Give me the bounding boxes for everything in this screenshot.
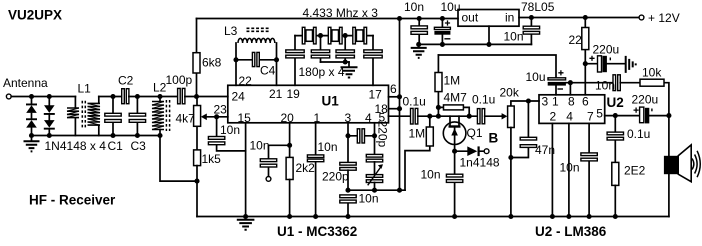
node pin20 branch: [287, 143, 292, 148]
wire pin 18 stub: [389, 108, 400, 110]
node rail riser: [397, 16, 402, 21]
capacitor 10n below node A: [340, 195, 356, 217]
inductor L3 with core: [236, 28, 277, 85]
diode D3 (1N4148, pointing down): [44, 97, 55, 121]
svg-text:5: 5: [596, 107, 603, 121]
potentiometer 20k volume: [502, 106, 515, 217]
node gnd bus left: [416, 42, 421, 47]
ground bus main: [197, 216, 669, 218]
capacitor C1: [105, 97, 121, 136]
wire decoupling ground bus: [419, 43, 532, 45]
wire pin 2 down: [551, 123, 553, 216]
svg-text:L3: L3: [224, 24, 238, 38]
capacitor coupling pin3-pin4 (series): [348, 129, 375, 143]
wire riser to V+ rail: [399, 19, 401, 191]
inductor L2: [152, 97, 164, 136]
node gnd bus regulator: [486, 42, 491, 47]
wire C2 to L2 top: [129, 96, 160, 98]
node 180p bus: [343, 59, 348, 64]
svg-text:21: 21: [269, 87, 283, 101]
wire antenna to diodes and L1 primary: [11, 96, 75, 98]
node C3 bottom: [135, 133, 140, 138]
svg-text:100p: 100p: [166, 73, 193, 87]
svg-text:1M: 1M: [444, 74, 461, 88]
node L2 top: [157, 94, 162, 99]
svg-text:4: 4: [566, 110, 573, 124]
node 220u supply: [583, 61, 588, 66]
svg-text:220p: 220p: [376, 121, 390, 148]
svg-text:U2 - LM386: U2 - LM386: [535, 224, 607, 239]
svg-text:220u: 220u: [632, 93, 659, 107]
speaker: [664, 116, 700, 217]
svg-text:0.1u: 0.1u: [403, 95, 426, 109]
wire gain 10u feed: [438, 55, 556, 78]
crystal X2: [328, 27, 342, 44]
svg-text:2k2: 2k2: [296, 161, 316, 175]
capacitor 0.1u pin5 (series): [411, 108, 418, 124]
svg-text:4k7: 4k7: [176, 112, 196, 126]
svg-text:out: out: [462, 11, 479, 25]
svg-text:U1 - MC3362: U1 - MC3362: [277, 224, 357, 239]
svg-text:19: 19: [287, 87, 301, 101]
resistor 4M7: [438, 105, 469, 116]
resistor 2E2: [612, 162, 619, 216]
capacitor 47n: [511, 101, 537, 158]
node emitter: [452, 149, 457, 154]
node C3 top: [135, 94, 140, 99]
svg-text:U2: U2: [607, 95, 624, 110]
node pin3 47n: [526, 98, 531, 103]
wire pin 3 to volume pot: [511, 101, 539, 106]
svg-text:20: 20: [281, 111, 295, 125]
wire pin 5 to 0.1u: [389, 115, 411, 117]
node bus pin15: [243, 214, 248, 219]
wire pin 5 output: [605, 115, 640, 117]
transformer L1 secondary: [88, 97, 101, 136]
svg-text:180p x 4: 180p x 4: [299, 65, 345, 79]
svg-text:220u: 220u: [593, 43, 620, 57]
wire 100p to U1 pin 24: [185, 96, 228, 98]
svg-text:10n: 10n: [421, 168, 441, 182]
svg-text:10n: 10n: [318, 140, 338, 154]
svg-text:C4: C4: [260, 64, 276, 78]
svg-text:15: 15: [238, 111, 252, 125]
capacitor 180p #3: [336, 36, 354, 62]
node C1 bottom: [110, 133, 115, 138]
wire bottom rail input section: [32, 135, 161, 137]
wire L2 bottom to 1k5 bottom junction: [160, 136, 197, 217]
svg-text:U1: U1: [322, 94, 340, 109]
svg-text:2E2: 2E2: [624, 164, 646, 178]
inductor L2 core: [166, 100, 169, 131]
wire regulator ground pin: [488, 26, 490, 44]
node 4M7 right: [467, 114, 472, 119]
capacitor 10n pin 1 (inline): [307, 123, 323, 217]
node trimmer bottom: [372, 188, 377, 193]
trimmer capacitor: [366, 164, 383, 190]
node pot 47n: [508, 155, 513, 160]
node 4M7 left: [436, 105, 441, 110]
capacitor 10n feedback (series): [613, 75, 620, 91]
wire L2 top to 100p: [160, 96, 178, 98]
ground crystal filter: [341, 62, 358, 78]
node C1 top: [110, 94, 115, 99]
svg-text:6: 6: [390, 82, 397, 96]
node output: [666, 113, 671, 118]
svg-text:8: 8: [568, 95, 575, 109]
capacitor C2 (series): [122, 89, 129, 104]
svg-text:17: 17: [369, 88, 383, 102]
svg-text:23: 23: [214, 103, 228, 117]
node antenna rail / D3 column: [47, 94, 52, 99]
wire pin 4 down: [568, 123, 570, 216]
node pot top / 6k8 bottom: [194, 94, 199, 99]
node crystal chain 2: [343, 33, 348, 38]
svg-text:10u: 10u: [526, 70, 546, 84]
wire pin 20 down: [289, 123, 291, 158]
node crystal chain 1: [318, 33, 323, 38]
capacitor 180p #2: [311, 36, 329, 62]
node gnd bus 10u: [440, 42, 445, 47]
crystal X1: [302, 27, 316, 44]
antenna terminal: [6, 94, 11, 99]
node rail 10u: [440, 16, 445, 21]
capacitor 10u gain (polarized): [548, 70, 566, 95]
svg-text:VU2UPX: VU2UPX: [8, 8, 62, 23]
ground antenna section: [24, 136, 40, 152]
svg-text:7: 7: [587, 110, 594, 124]
svg-text:1k5: 1k5: [202, 152, 222, 166]
node 1k5 bottom: [194, 179, 199, 184]
svg-text:C2: C2: [118, 74, 134, 88]
node 1M2 top: [427, 114, 432, 119]
svg-text:B: B: [489, 131, 499, 146]
svg-text:10n: 10n: [220, 123, 240, 137]
svg-text:4: 4: [365, 111, 372, 125]
wire pin 6 stub: [389, 96, 400, 98]
node bus emitter: [452, 214, 457, 219]
node L2 bottom: [157, 133, 162, 138]
svg-text:10k: 10k: [642, 66, 662, 80]
node tank right: [274, 57, 279, 62]
capacitor 10n pin 7 (inline): [581, 123, 597, 216]
wire in to +12V: [519, 17, 639, 19]
capacitor 10n emitter: [446, 151, 462, 216]
capacitor C4: [236, 52, 277, 66]
node bottom rail D3: [47, 133, 52, 138]
svg-text:3: 3: [542, 95, 549, 109]
capacitor 220p pin 4: [366, 154, 382, 174]
regulator 78L05: [458, 10, 519, 27]
wire base line: [418, 115, 478, 117]
ground decoupling: [411, 44, 427, 58]
svg-text:in: in: [505, 11, 514, 25]
wire wiper from 0.1u: [501, 115, 503, 117]
wire pin 8 row: [566, 83, 613, 95]
capacitor 220p pin 3: [340, 162, 356, 190]
svg-text:10n: 10n: [359, 192, 379, 206]
svg-text:Q1: Q1: [467, 126, 483, 140]
node bottom rail D1: [29, 133, 34, 138]
svg-text:1N4148 x 4: 1N4148 x 4: [45, 139, 107, 153]
capacitor 180p #1 (inline pin 19): [286, 36, 304, 86]
svg-text:2: 2: [550, 110, 557, 124]
node rail 10n: [417, 16, 422, 21]
svg-text:1: 1: [314, 111, 321, 125]
capacitor 10n pin 20 with test terminal: [260, 145, 289, 181]
capacitor 10n regulator input: [523, 18, 539, 45]
node riser: [397, 188, 402, 193]
svg-text:1: 1: [552, 95, 559, 109]
node bus pin7: [587, 214, 592, 219]
svg-text:0.1u: 0.1u: [627, 127, 650, 141]
svg-text:220p: 220p: [322, 170, 349, 184]
node 1M1 bottom: [436, 114, 441, 119]
node in 10n: [529, 15, 534, 20]
diode 1n4148 BFO: [455, 146, 489, 156]
terminal +12V: [639, 15, 644, 20]
wire node A to vertical riser: [348, 189, 405, 191]
node bus zobel: [613, 214, 618, 219]
wire pin 15 to ground bus: [245, 123, 247, 217]
capacitor 10n rail decoupling: [411, 19, 427, 45]
transistor Q1: [443, 116, 466, 151]
svg-text:20k: 20k: [500, 86, 520, 100]
svg-text:0.1u: 0.1u: [472, 93, 495, 107]
node rail 22 resistor: [583, 15, 588, 20]
resistor 2k2: [286, 157, 293, 216]
node pin23 wire: [214, 114, 219, 119]
node pin3 coupling: [345, 133, 350, 138]
wire 180p ground bus: [321, 61, 350, 63]
node bus pot: [508, 214, 513, 219]
svg-text:C1: C1: [108, 139, 124, 153]
capacitor 220u output (polarized): [634, 107, 669, 123]
svg-text:HF - Receiver: HF - Receiver: [29, 193, 116, 208]
svg-text:1M: 1M: [409, 127, 426, 141]
resistor 22: [582, 18, 589, 95]
node pin6: [397, 94, 402, 99]
V+ rail from 6k8 to 78L05 out: [197, 18, 459, 20]
svg-text:10n: 10n: [250, 139, 270, 153]
node bus pin2: [550, 214, 555, 219]
resistor 1k5: [194, 150, 201, 181]
svg-text:4.433 Mhz x 3: 4.433 Mhz x 3: [303, 6, 379, 20]
node A quad junction: [345, 188, 350, 193]
wire pin 4 down: [374, 123, 376, 155]
svg-text:6: 6: [582, 95, 589, 109]
crystal chain wire: [295, 35, 373, 37]
node pin18: [397, 106, 402, 111]
node bus 2k2: [287, 214, 292, 219]
transformer L1 primary: [67, 97, 79, 136]
svg-text:78L05: 78L05: [521, 0, 555, 14]
svg-text:24: 24: [232, 90, 246, 104]
svg-text:L1: L1: [78, 82, 92, 96]
diode D1 (1N4148, pointing up): [26, 97, 37, 119]
capacitor 0.1u output (series): [477, 109, 502, 124]
potentiometer 4k7: [194, 97, 207, 150]
svg-text:+ 12V: + 12V: [648, 11, 680, 25]
capacitor 180p #4 (inline pin 17): [364, 36, 382, 86]
svg-text:1n4148: 1n4148: [460, 156, 500, 170]
diode D2 (1N4148, pointing up): [26, 118, 37, 135]
svg-text:10n: 10n: [404, 0, 424, 14]
capacitor 220u supply (polarized): [585, 56, 625, 72]
node zobel: [613, 113, 618, 118]
svg-text:4M7: 4M7: [444, 91, 468, 105]
capacitor C3: [129, 97, 145, 136]
capacitor 10u rail (polarized): [434, 19, 450, 45]
node bus pin3: [345, 214, 350, 219]
capacitor 100p (series): [178, 88, 185, 103]
crystal X3: [353, 27, 367, 44]
node bus pin4: [566, 214, 571, 219]
IC U1 MC3362 box: [228, 85, 389, 123]
node bus pin1: [313, 214, 318, 219]
capacitor 0.1u zobel: [607, 116, 623, 163]
wire pin 23 to 4k7 wiper: [207, 116, 228, 118]
node antenna rail / D1 column: [29, 94, 34, 99]
svg-text:22: 22: [569, 33, 583, 47]
svg-text:22: 22: [239, 74, 253, 88]
svg-text:C3: C3: [131, 139, 147, 153]
resistor 10k: [620, 79, 669, 115]
resistor 1M bias: [435, 55, 442, 116]
node tank left: [233, 57, 238, 62]
svg-text:10n: 10n: [560, 161, 580, 175]
transformer L1 core: [82, 101, 85, 129]
resistor 6k8: [193, 19, 200, 97]
ground main symbol: [237, 217, 255, 230]
node pin4 coupling: [372, 133, 377, 138]
diode D4 (1N4148, pointing down): [44, 120, 55, 135]
resistor 1M lower: [405, 116, 433, 190]
wire L1 secondary to C2: [99, 96, 122, 98]
ground chassis supply: [626, 56, 636, 73]
wire pin 3 down: [347, 123, 349, 163]
IC U2 LM386 box: [539, 95, 605, 124]
node pin 8: [568, 80, 573, 85]
svg-text:10n: 10n: [504, 30, 524, 44]
svg-text:Antenna: Antenna: [3, 76, 48, 90]
capacitor 10n on pin 23: [208, 117, 245, 151]
svg-text:6k8: 6k8: [202, 56, 222, 70]
svg-text:10n: 10n: [595, 79, 615, 93]
